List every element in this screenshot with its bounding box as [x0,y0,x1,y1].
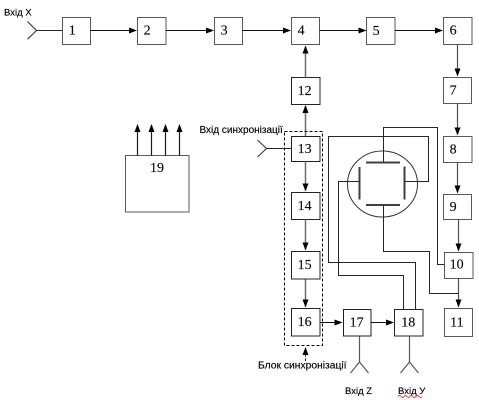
svg-text:12: 12 [298,84,312,99]
svg-text:16: 16 [298,315,312,330]
wire 12 to 4 [305,47,307,78]
block 8 [444,137,473,163]
wire input to block 1 [37,30,63,32]
block 4 [292,18,320,45]
svg-text:18: 18 [401,315,415,330]
svg-text:8: 8 [450,142,457,157]
block 2 [138,18,167,45]
wire top plate to block 10 [384,128,445,265]
svg-text:2: 2 [144,24,151,39]
svg-text:15: 15 [298,258,312,273]
wire sync input to block 13 [267,148,292,150]
svg-text:11: 11 [450,315,463,330]
supply arrow c [165,125,167,156]
svg-text:19: 19 [150,161,164,176]
wire 3 to 4 [243,30,291,32]
block 15 [292,252,321,280]
svg-text:Блок синхронізації: Блок синхронізації [258,361,347,372]
input terminal Вхід У [401,362,419,373]
input terminal Вхід X [28,22,37,40]
svg-text:1: 1 [69,24,76,39]
block 16 [292,309,321,337]
CRT left plate [359,167,361,200]
svg-text:4: 4 [298,24,305,39]
block 3 [215,18,243,45]
block 6 [444,18,473,45]
CRT top plate [366,162,400,164]
block 17 [344,310,372,337]
wire 1 to 2 [91,30,137,32]
wire 4 to 5 [320,30,366,32]
block 11 [445,309,473,337]
svg-text:3: 3 [221,24,228,39]
wire 14 to 15 [305,220,307,250]
input terminal sync [258,140,267,157]
svg-text:14: 14 [298,199,312,214]
wire 10 to 11 [458,279,460,307]
svg-text:5: 5 [373,24,380,39]
CRT right plate [404,167,406,200]
wire bottom plate to node under block 10 [384,205,459,294]
wire 17 to 18 [371,322,393,324]
wire 5 to 6 [395,30,442,32]
wire 9 to 10 [458,220,460,251]
wire 13 to 14 [305,162,307,191]
svg-text:Вхід X: Вхід X [4,8,32,19]
wire left plate to block 18 [339,182,404,310]
svg-text:Вхід синхронізації: Вхід синхронізації [200,125,283,136]
supply arrow d [179,125,181,156]
wire 8 to 9 [457,163,459,193]
svg-text:Вхід Z: Вхід Z [345,386,372,397]
svg-text:6: 6 [450,24,457,39]
block 5 [367,18,396,45]
block 1 [63,18,91,45]
wire right plate to block 18 [329,137,429,310]
CRT envelope [348,151,418,217]
block 13 [292,137,321,162]
svg-text:10: 10 [450,257,464,272]
wire 16 to 17 [320,322,342,324]
supply arrow a [137,125,139,156]
svg-text:9: 9 [450,200,457,215]
dashed enclosure Блок синхронізації [285,132,323,346]
wire 7 to 8 [457,104,459,135]
svg-text:13: 13 [298,142,312,157]
wire block 17 to Z terminal [359,337,361,363]
supply arrow b [151,125,153,156]
block 9 [444,195,472,220]
wire block 18 to Y terminal [409,337,411,363]
block 14 [292,193,321,220]
svg-text:7: 7 [450,83,457,98]
block 18 [395,310,424,337]
block 10 [445,253,474,279]
wire 13 to 12 [305,106,307,137]
block 7 [444,78,472,104]
CRT bottom plate [366,204,400,206]
spellcheck squiggle under Вхід У [398,396,422,398]
block 19 power supply [126,156,190,213]
wire 6 to 7 [457,45,459,76]
wire 2 to 3 [166,30,213,32]
dashed arrow label to enclosure [305,348,307,361]
input terminal Вхід Z [351,362,369,373]
block 12 [292,78,321,105]
wire 15 to 16 [305,280,307,307]
svg-text:17: 17 [350,315,364,330]
